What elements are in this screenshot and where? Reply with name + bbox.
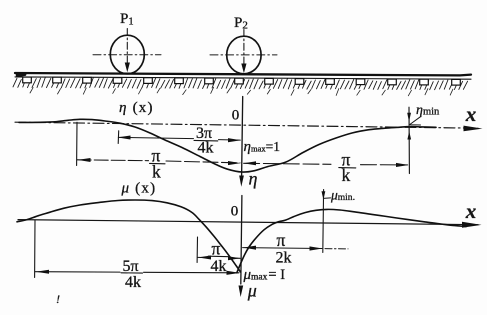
svg-text:μ: μ (247, 281, 257, 301)
dim pi/4k extension line (196, 237, 198, 263)
load arrow P2 (241, 64, 246, 74)
dim pi/2k line (243, 247, 322, 250)
svg-text:π: π (212, 239, 221, 259)
rail left end blob (16, 72, 28, 78)
etamin lower arrow (up) (407, 131, 411, 139)
dim 5pi/4k left arrow (36, 270, 49, 274)
etamin upper arrow (down) (407, 113, 411, 122)
wheel W1 centerline horizontal (93, 54, 161, 56)
dim 3pi/4k right arrow (228, 138, 241, 142)
dim 3pi/4k line left segment (119, 137, 194, 138)
dim pi/4k left arrow (198, 256, 211, 260)
mumin arrow (down) (322, 191, 326, 200)
dim pi/k left arrow east (228, 161, 241, 165)
dim 5pi/4k line left segment (35, 271, 120, 273)
svg-text:k: k (342, 165, 351, 185)
dim pi/k right arrow west (243, 161, 256, 165)
mu x-axis (18, 220, 478, 225)
label pi/k right bar (339, 167, 356, 169)
etamin extension line (408, 107, 410, 173)
load arrow P1 (125, 63, 130, 73)
svg-text:x: x (465, 199, 477, 223)
dim pi/2k dashdot continuation (325, 248, 348, 250)
svg-text:π: π (277, 230, 286, 250)
svg-text:x: x (465, 102, 477, 126)
mu x-axis arrowhead (462, 222, 482, 228)
load line P1 (126, 29, 128, 64)
dim pi/2k right arrow (310, 246, 323, 250)
dim 5pi/4k right arrow (227, 271, 240, 275)
svg-text:4k: 4k (198, 140, 214, 157)
dim pi/k right line seg a (244, 163, 331, 164)
sleepers (23, 77, 32, 83)
label 5pi/4k bar (121, 272, 143, 274)
svg-text:2k: 2k (276, 250, 292, 267)
svg-text:η (x): η (x) (119, 100, 154, 116)
svg-text:4k: 4k (211, 258, 227, 275)
dim pi/4k line left stub (198, 256, 209, 258)
svg-text:!: ! (56, 292, 60, 306)
mu curve left branch (17, 200, 241, 272)
eta axis down arrow (239, 176, 244, 187)
dim 3pi/4k left arrow (117, 136, 130, 140)
dim pi/2k left arrow (243, 246, 256, 250)
etamin leader (410, 116, 421, 125)
dim 5pi/4k line right segment (144, 271, 240, 274)
dim pi/k left line seg a (77, 159, 148, 162)
mu vertical axis (241, 196, 242, 285)
label pi/4k bar (208, 255, 229, 258)
dim 3pi/4k line right segment (219, 139, 241, 142)
wheel W2 (227, 36, 261, 74)
eta curve (19, 119, 436, 172)
dim 5pi/4k extension line (34, 220, 36, 277)
dim pi/k left extension line (76, 122, 78, 165)
label 3pi/4k bar (194, 139, 218, 142)
dim pi/k left line seg b (166, 161, 240, 163)
svg-text:0: 0 (232, 108, 240, 124)
dim pi/k left arrow west (78, 158, 91, 162)
dim pi/k right line seg b (361, 164, 408, 166)
wheel W2 centerline horizontal (210, 54, 277, 56)
dim 3pi/4k extension tick (117, 131, 120, 144)
svg-text:4k: 4k (125, 274, 141, 291)
dim pi/k right arrow east (396, 163, 409, 167)
dim pi/4k line right stub (230, 257, 241, 259)
mumin extension line (322, 190, 325, 253)
label pi/k left bar (150, 162, 166, 164)
mumin hook (323, 197, 330, 200)
load line P2 (243, 30, 245, 65)
dim pi/4k right arrow (228, 256, 240, 260)
mu axis down arrow (239, 286, 244, 298)
ground hatching (13, 77, 468, 90)
eta x-axis arrowhead (464, 126, 483, 132)
rail bottom line (15, 77, 471, 79)
eta vertical axis (242, 97, 243, 177)
rail top line (15, 73, 471, 75)
svg-text:μ (x): μ (x) (121, 181, 157, 197)
wheel W1 (110, 35, 144, 74)
svg-text:0: 0 (231, 204, 239, 220)
svg-text:k: k (152, 162, 161, 182)
mu curve right branch (237, 209, 466, 272)
eta x-axis (dash-dot) (15, 122, 478, 128)
